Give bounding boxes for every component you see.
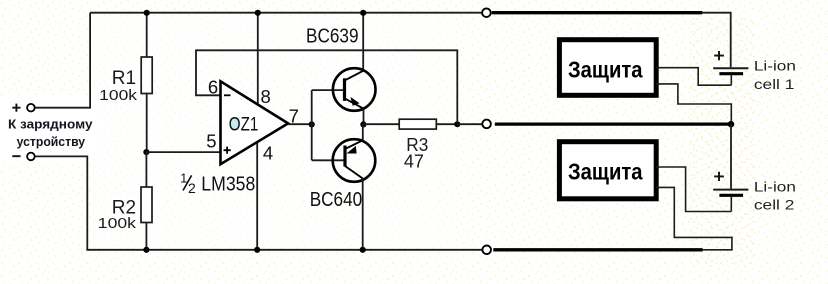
wire middle rail thick — [495, 122, 731, 125]
wire BC640 collector to bottom rail — [362, 178, 364, 250]
svg-text:OZ1: OZ1 — [229, 115, 258, 136]
transistor Q1 BC639 — [333, 68, 376, 111]
svg-text:R1: R1 — [112, 68, 136, 89]
svg-text:cell 2: cell 2 — [754, 197, 795, 213]
label − input — [12, 155, 20, 157]
background white patch opamp area — [96, 16, 456, 246]
terminal − (open circle) — [27, 153, 35, 161]
wire middle rail to cell2 positive — [730, 124, 732, 189]
junction emitters output — [360, 121, 366, 127]
wire R3 to output node — [436, 123, 457, 125]
label + cell2 — [714, 172, 724, 181]
resistor R3 — [399, 119, 436, 129]
wire feedback pin6 to output node — [196, 50, 457, 121]
label + cell1 — [714, 51, 724, 60]
wire protection2 to cell2 negative — [656, 167, 731, 212]
background yellow band near batteries — [688, 18, 755, 266]
svg-text:устройству: устройству — [17, 134, 86, 149]
wire pin4 to bottom rail — [256, 142, 258, 250]
svg-text:1: 1 — [180, 171, 187, 185]
wire bases vertical — [311, 90, 313, 160]
wire pin5 from divider — [146, 151, 220, 153]
wire top rail — [90, 12, 482, 14]
svg-text:К зарядному: К зарядному — [8, 117, 93, 132]
junction bases node — [309, 121, 315, 127]
junction bottom rail R2 — [143, 247, 149, 253]
wire opamp output to bases — [288, 123, 312, 125]
svg-text:BC639: BC639 — [306, 26, 359, 48]
wire protection2 to bottom rail — [656, 187, 732, 249]
protection module 2 (Защита) — [559, 142, 656, 199]
svg-text:Li-ion: Li-ion — [754, 178, 796, 194]
junction top rail pin8 — [255, 10, 261, 16]
wire emitters to R3 — [363, 123, 399, 125]
wire top rail to cell1 positive — [702, 13, 731, 67]
junction output feedback — [454, 121, 460, 127]
wire BC639 base — [312, 89, 343, 91]
wire BC640 base — [312, 159, 344, 161]
battery cell 1 — [713, 68, 748, 85]
op-amp OZ1 — [221, 81, 289, 164]
svg-text:8: 8 — [260, 86, 270, 107]
wire − terminal to bottom rail — [35, 156, 87, 249]
label + input — [12, 104, 20, 112]
svg-text:6: 6 — [208, 76, 218, 97]
background white patch charger text — [0, 96, 100, 164]
battery cell 2 — [713, 190, 748, 212]
terminal bottom (open circle) — [482, 246, 491, 255]
junction top rail BC639 collector — [360, 10, 366, 16]
transistor Q2 BC640 — [333, 139, 376, 182]
wire protection1 to cell1 negative — [656, 68, 731, 86]
protection module 1 (Защита) — [559, 40, 656, 96]
wire bottom rail — [86, 249, 482, 251]
svg-text:2: 2 — [188, 180, 196, 196]
terminal + (open circle) — [27, 104, 35, 112]
junction R1 R2 pin5 — [143, 149, 149, 155]
junction bottom rail pin4 — [254, 247, 260, 253]
label half LM358 — [180, 171, 255, 196]
svg-text:Защита: Защита — [568, 56, 643, 82]
terminal middle (open circle) — [482, 120, 491, 129]
svg-text:100k: 100k — [98, 216, 137, 232]
svg-text:cell 1: cell 1 — [754, 76, 795, 92]
junction bottom rail BC640 — [360, 247, 366, 253]
resistor R2 — [141, 152, 152, 250]
wire bottom rail thick — [493, 248, 702, 251]
svg-text:Li-ion: Li-ion — [754, 58, 796, 74]
svg-text:4: 4 — [263, 142, 273, 163]
junction middle rail cells — [728, 121, 735, 128]
svg-text:5: 5 — [206, 130, 216, 151]
label OZ1 O highlight — [229, 117, 240, 131]
resistor R1 — [141, 13, 152, 152]
svg-text:Защита: Защита — [568, 159, 643, 185]
svg-text:LM358: LM358 — [201, 173, 255, 195]
wire BC639 emitter down — [363, 109, 365, 125]
wire pin8 to top rail — [257, 13, 259, 104]
wire output to middle terminal — [457, 123, 482, 125]
terminal top rail (open circle) — [482, 8, 491, 17]
wire + terminal to top rail — [35, 13, 90, 108]
svg-text:47: 47 — [404, 152, 424, 172]
svg-text:BC640: BC640 — [310, 189, 363, 211]
junction top rail R1 — [144, 10, 150, 16]
wire BC639 collector to top rail — [362, 13, 364, 71]
wire BC640 emitter up — [362, 124, 364, 141]
svg-text:100k: 100k — [99, 88, 138, 104]
wire top rail thick — [492, 11, 703, 14]
wire protection1 to middle rail — [656, 84, 731, 121]
